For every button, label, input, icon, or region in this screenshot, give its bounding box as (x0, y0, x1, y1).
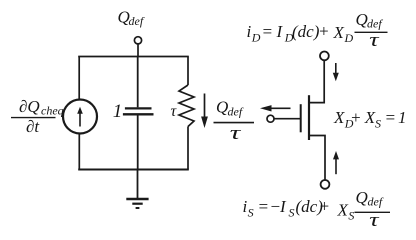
svg-text:(dc): (dc) (292, 22, 320, 41)
svg-text:def: def (228, 105, 244, 119)
capacitor C1 bottom lead (137, 115, 139, 169)
arrow resistor current down (204, 94, 206, 119)
wire source lead (309, 136, 325, 180)
wire gate lead (274, 118, 301, 120)
svg-text:S: S (248, 206, 254, 220)
svg-text:=: = (258, 197, 269, 216)
wire terminal stem (137, 44, 139, 57)
terminal source (321, 180, 330, 189)
label Qdef (118, 7, 145, 28)
svg-text:+: + (319, 197, 330, 216)
svg-text:I: I (276, 22, 284, 41)
resistor tau top lead (187, 57, 189, 86)
label iD equation (247, 10, 384, 51)
terminal Qdef (134, 37, 141, 44)
svg-text:X: X (364, 108, 376, 127)
svg-text:+: + (350, 108, 361, 127)
svg-text:D: D (344, 31, 354, 45)
svg-text:=: = (385, 108, 396, 127)
svg-text:D: D (251, 30, 261, 44)
resistor tau bottom lead (187, 127, 189, 170)
transistor M1 channel bar (308, 95, 310, 140)
svg-text:Q: Q (216, 98, 228, 117)
wire bottom rail (78, 169, 189, 171)
svg-text:i: i (247, 22, 252, 41)
capacitor C1 top lead (137, 57, 139, 108)
svg-text:Q: Q (356, 10, 368, 29)
fraction bar iS equation (355, 211, 391, 213)
svg-text:S: S (375, 116, 381, 130)
terminal drain (320, 52, 329, 61)
wire top rail (78, 56, 189, 58)
label iS equation (243, 188, 384, 231)
svg-text:I: I (279, 197, 287, 216)
wire current source bottom lead (78, 133, 80, 170)
fraction bar iD equation (355, 31, 388, 33)
terminal gate (267, 115, 274, 122)
svg-text:∂Q: ∂Q (19, 97, 40, 116)
svg-text:def: def (367, 16, 383, 30)
svg-text:1: 1 (398, 108, 407, 127)
capacitor C1 plates (125, 107, 152, 109)
arrow pointing left (into Qdef/tau) (271, 107, 291, 109)
svg-text:τ: τ (230, 123, 242, 144)
label Qdef/tau (resistor current) (216, 98, 244, 145)
fraction bar Qdef/tau (214, 122, 255, 124)
svg-text:1: 1 (113, 101, 123, 122)
arrow drain current down (335, 63, 337, 73)
current source I1 (63, 100, 97, 134)
wire current source top lead (78, 57, 80, 101)
svg-text:S: S (289, 206, 295, 220)
transistor M1 gate bar (300, 104, 302, 132)
svg-text:S: S (348, 209, 354, 223)
svg-text:cheq: cheq (41, 104, 64, 118)
svg-text:def: def (129, 14, 145, 28)
svg-text:def: def (368, 194, 384, 208)
svg-text:X: X (333, 23, 345, 42)
label dQcheq/dt (19, 97, 64, 136)
svg-text:X: X (337, 201, 349, 220)
svg-text:+: + (318, 22, 329, 41)
svg-text:Q: Q (356, 188, 368, 207)
arrow source current up (335, 159, 337, 174)
svg-text:τ: τ (171, 103, 178, 120)
label XD + XS = 1 (333, 108, 407, 130)
resistor tau zigzag (179, 85, 194, 127)
svg-text:X: X (333, 108, 345, 127)
svg-text:=: = (262, 22, 273, 41)
svg-text:∂t: ∂t (26, 117, 40, 136)
ground (137, 170, 139, 199)
wire drain lead (309, 60, 324, 102)
fraction bar dQcheq/dt (11, 117, 56, 119)
